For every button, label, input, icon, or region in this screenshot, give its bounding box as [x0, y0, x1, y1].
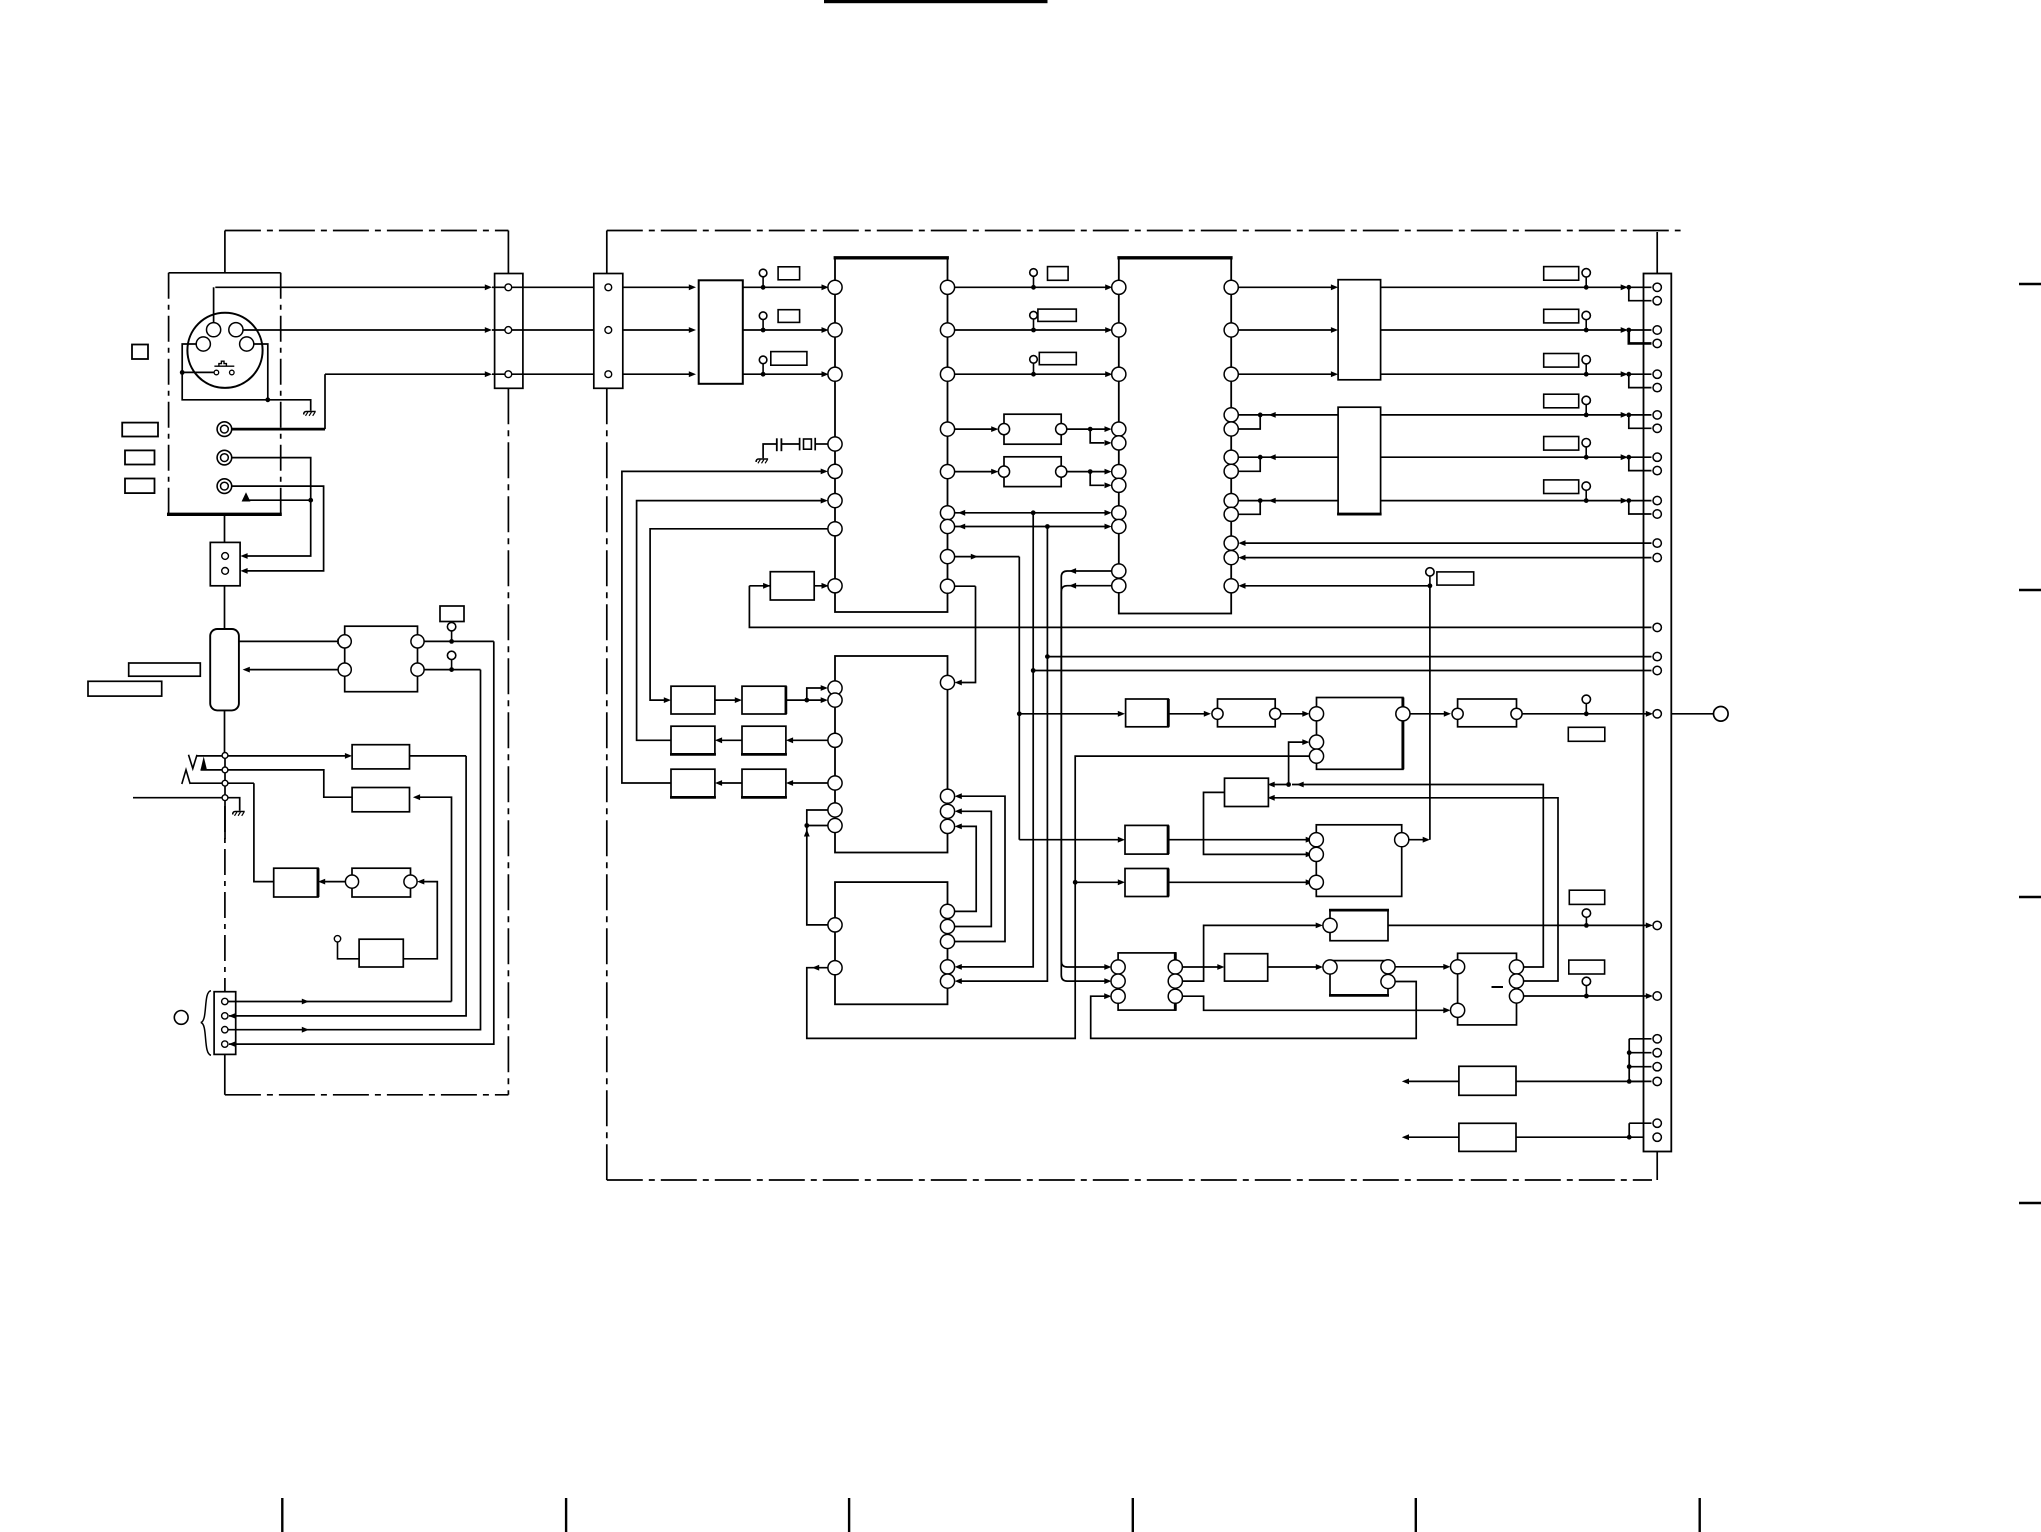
arrow into IC2 pin 557 — [1238, 555, 1245, 561]
lever spring V — [189, 755, 198, 769]
arrow out IC2 pair y=500.6 — [1269, 498, 1276, 504]
wire IC4 911 to IC3 826 — [955, 826, 977, 911]
wire junction to IC3 pin700 — [807, 699, 825, 701]
wire riser to IC2 pin 585.8 — [1242, 585, 1430, 587]
arrow into burst pin — [1316, 923, 1323, 929]
wire IC1 xtal pin — [815, 443, 828, 445]
boxK pin right 2 — [1509, 974, 1523, 988]
wire to pin row 5 — [1629, 456, 1652, 458]
box F right edge thick — [1401, 698, 1404, 770]
test point row3 (block out) — [759, 356, 767, 377]
IC2 right pin y=514.3 — [1224, 507, 1238, 521]
CN3 pin 6 — [1653, 383, 1661, 391]
label box CN3 row 6 — [1544, 480, 1579, 494]
arrow into box O3 — [715, 737, 722, 743]
box M1 — [345, 626, 418, 692]
test point CN3 row 2 — [1582, 311, 1590, 332]
arrow into boxF pin — [1302, 711, 1309, 717]
box O3 bottom edge thick — [670, 753, 716, 756]
bus Y1 with clock riser — [749, 586, 1651, 628]
IC1 right pin y=586.2 — [940, 579, 954, 593]
IC2 left pin y=571.0 — [1112, 564, 1126, 578]
arrow into Q pin2 — [1104, 978, 1111, 984]
box H — [1225, 778, 1269, 806]
arrow into boxE pin — [1204, 711, 1211, 717]
switch ground elbow — [228, 798, 240, 811]
box O4 bottom edge thick — [741, 753, 787, 756]
box M2 — [352, 745, 409, 769]
wire xtal to cap — [781, 443, 799, 445]
IC1 right pin y=287.3 — [940, 280, 954, 294]
PLL pin left 2 — [1309, 847, 1323, 861]
Z-link row 2 — [1629, 330, 1652, 343]
DIN J1 pin 5 — [214, 370, 219, 375]
box E — [1218, 699, 1276, 727]
panel box top edge — [169, 272, 281, 274]
right unit boundary top edge — [607, 230, 1681, 232]
IC2 left pin y=512.8 — [1112, 506, 1126, 520]
arrow into IC4 pin 966.9 — [955, 964, 962, 970]
vertical V2 — [958, 513, 1033, 967]
arrow into block row 1 — [689, 284, 696, 290]
arrow into box H in1 — [1268, 782, 1275, 788]
junction pair y=414.9 — [1258, 413, 1263, 418]
label box CN3 row 1 — [1544, 267, 1579, 281]
arrow before CN3 row 3 — [1621, 371, 1628, 377]
signal row 3 segment CN1-CN2 — [492, 373, 594, 375]
arrow into IC1 pin 500.6 — [821, 498, 828, 504]
wire burst out to CN3 — [1388, 924, 1650, 926]
IC1 body — [835, 258, 948, 612]
Z-link row 1 — [1629, 287, 1652, 300]
junction OSD row1 — [804, 698, 809, 703]
arrow out IC2 pin585.7 — [1069, 583, 1076, 589]
right-edge alignment tick 4 — [2019, 1202, 2041, 1204]
P2 pin right — [1056, 466, 1067, 477]
Q pin right y=967 — [1168, 960, 1182, 974]
small label box above TP — [440, 606, 464, 622]
wire IC2 pair upper y=457.2 — [1238, 456, 1338, 458]
riser junction to boxF pin2 — [1289, 742, 1306, 784]
test point TP2 — [447, 651, 455, 672]
P1 pin right — [1056, 424, 1067, 435]
PLL pin right — [1395, 833, 1409, 847]
box K — [1458, 953, 1517, 1025]
box P2 — [1004, 457, 1061, 487]
arrow into boxK pin2 — [1443, 1007, 1450, 1013]
test point row1 (IC1 out) — [1030, 269, 1038, 290]
IC1 left pin y=374.2 — [828, 367, 842, 381]
title underline bar — [824, 0, 1048, 3]
branch to IC3 pin 688 — [807, 688, 825, 700]
box N1 (IR amp) — [274, 868, 318, 897]
IC2 right pin y=457.2 — [1224, 450, 1238, 464]
Q pin right y=996.2 — [1168, 989, 1182, 1003]
burst box pin left — [1323, 918, 1337, 932]
right unit boundary left segment upper — [606, 231, 608, 274]
box G — [1458, 699, 1517, 727]
wire O6 to O5 — [718, 782, 742, 784]
box BR2 — [1459, 1123, 1516, 1151]
IC4 body (charagen) — [835, 882, 948, 1004]
IC1 right pin y=526.5 — [940, 519, 954, 533]
lever wire c4 row — [133, 797, 222, 799]
arrow into IC2 y=471.6 — [1105, 469, 1112, 475]
CN3 pin 12 — [1653, 510, 1661, 518]
IC3 left pin y=700.1 — [828, 693, 842, 707]
wire M2 out — [410, 755, 467, 757]
label box CN3 row 5 — [1544, 437, 1579, 451]
remote sensor circle — [174, 1011, 188, 1025]
label box row2 (block out) — [778, 310, 800, 323]
CN3 pin 9 — [1653, 453, 1661, 461]
arrow into M3 — [413, 794, 420, 800]
IC2 right pin y=471.3 — [1224, 464, 1238, 478]
box D right edge thick — [1167, 869, 1170, 897]
boxF pin left 1 — [1309, 707, 1323, 721]
IC3 left pin y=740.3 — [828, 733, 842, 747]
arrow into box O2 — [735, 697, 742, 703]
junction V3 busY2 — [1045, 654, 1050, 659]
branch P2 to IC2 second pin — [1090, 472, 1104, 486]
switch wire c3-c4 — [224, 786, 226, 795]
test point CN3 row 4 — [1582, 396, 1590, 417]
box O2 right edge thick — [785, 686, 788, 714]
crystal body — [804, 439, 812, 449]
CN3 pin cluster 1 — [1653, 1035, 1661, 1043]
signal row 3 segment block-IC1 — [743, 373, 826, 375]
CN3 pin busY2 — [1653, 652, 1661, 660]
ground (switch) — [233, 812, 245, 816]
arrow into IC2 row 2 — [1105, 327, 1112, 333]
CN3 pin 1 — [1653, 283, 1661, 291]
IC2 left pin y=374.2 — [1112, 367, 1126, 381]
wire boxJ to boxK — [1395, 966, 1447, 968]
IC1 right pin y=471.6 — [940, 465, 954, 479]
boxK minus mark — [1492, 986, 1504, 988]
4-pin connector pin 1 — [222, 998, 228, 1004]
DIN J1 pin 2 — [229, 323, 243, 337]
arrow into IC4 pin 981.1 — [955, 978, 962, 984]
RCA jack video inner — [221, 425, 229, 433]
wire PLL out riser — [1409, 586, 1430, 840]
terminal lead — [1671, 713, 1713, 715]
wire IC4 941 to IC3 796 — [955, 796, 1005, 941]
CN3 pair bracket lower — [1629, 1123, 1651, 1137]
junction Z row 3 — [1626, 372, 1631, 377]
box O3 — [671, 726, 715, 754]
CN3 pin 557 — [1653, 553, 1661, 561]
burst box top edge thick — [1329, 909, 1389, 912]
junction V1 G-row — [1017, 711, 1022, 716]
capacitor plate left — [776, 438, 778, 451]
IC3 right pin y=682.5 — [940, 675, 954, 689]
CN1 pin 1 — [505, 284, 512, 291]
crystal plate left — [799, 438, 801, 451]
arrow into IC2 y=485.3 — [1105, 482, 1112, 488]
switch contact c4 — [222, 795, 228, 801]
wire to pin row 2 — [1629, 329, 1652, 331]
arrow left end BR2 — [1402, 1134, 1409, 1140]
signal row 2 segment block-IC1 — [743, 329, 826, 331]
lever wire c3 row — [190, 782, 222, 784]
signal row 3 segment CN2-block — [623, 373, 693, 375]
CN3 pin cluster 4 — [1653, 1077, 1661, 1085]
arrow up to junction 825.5 — [804, 829, 810, 836]
wire V1 to SB1 — [1019, 713, 1121, 715]
signal row 1 segment boxA-CN3 — [1381, 286, 1625, 288]
IC1 left pin y=500.6 — [828, 494, 842, 508]
box Q — [1118, 953, 1175, 1010]
CN3 pin busY3 — [1653, 666, 1661, 674]
arrow right y=512.8 — [1105, 510, 1112, 516]
boxG pin right — [1511, 708, 1522, 719]
arrow before CN3 y=457.2 — [1621, 454, 1628, 460]
M1 pin left 1 — [338, 635, 351, 648]
4-pin connector — [214, 992, 236, 1055]
signal row 2 segment CN1-CN2 — [492, 329, 594, 331]
signal row 1 segment IC2-boxA — [1238, 286, 1334, 288]
IC2 left pin y=485.3 — [1112, 478, 1126, 492]
wire boxI to boxJ — [1268, 966, 1320, 968]
wire DIN pin5 stub — [182, 371, 214, 373]
arrow into boxI — [1217, 964, 1224, 970]
wire P2 to IC2 — [1067, 471, 1108, 473]
IC4 right pin y=911.4 — [940, 904, 954, 918]
box N3 (IR sensor) — [359, 939, 403, 967]
IC1 left pin y=528.8 — [828, 522, 842, 536]
CN1 pin 2 — [505, 327, 512, 334]
arrow into box A row 1 — [1331, 284, 1338, 290]
Q pin left y=967 — [1111, 960, 1125, 974]
CN3 pin lower 2 — [1653, 1133, 1661, 1141]
wire DIN pin3 loop left — [182, 344, 268, 400]
connector CN2 — [594, 274, 623, 389]
signal row 1 segment DIN-CN1 — [215, 286, 488, 288]
wire BR1 line — [1405, 1080, 1643, 1082]
junction V2 busY3 — [1031, 668, 1036, 673]
wire IC1 to P2 — [955, 471, 995, 473]
signal row 2 segment IC1-IC2 — [955, 329, 1109, 331]
switch wire below c4 — [224, 801, 226, 839]
RCA jack audio R outer — [217, 479, 232, 494]
CN3 pin burst — [1653, 921, 1661, 929]
branch P1 to IC2 second pin — [1090, 429, 1104, 443]
box N1 right edge thick — [317, 868, 320, 897]
bottom alignment tick 5 — [1415, 1498, 1417, 1532]
CN2 pin 3 — [605, 371, 612, 378]
wire connector to M1 in — [239, 640, 341, 642]
panel box bottom edge (thick) — [167, 513, 282, 516]
arrow into 2pin block pin2 — [240, 568, 247, 574]
wire O4 to O3 — [718, 739, 742, 741]
box P1 — [1004, 414, 1061, 444]
right unit boundary left edge (chain below CN2) — [606, 388, 608, 1180]
wire VL3 (pin3 up to M1 in) — [229, 670, 481, 1030]
wire Q2 to burst box — [1182, 925, 1319, 981]
IC2 right pin y=429.0 — [1224, 422, 1238, 436]
IC3 left pin y=783 — [828, 776, 842, 790]
wire 2pin block down — [224, 586, 226, 629]
IC1 left pin y=585.8 — [828, 579, 842, 593]
bottom alignment tick 4 — [1132, 1498, 1134, 1532]
box O5 bottom edge thick — [670, 796, 716, 799]
bottom alignment tick 1 — [281, 1498, 283, 1532]
wire V5a to box D — [1075, 881, 1121, 883]
IC2 left pin y=471.6 — [1112, 465, 1126, 479]
wire IC2 pair upper y=500.6 — [1238, 500, 1338, 502]
arrow right y=526.5 — [1105, 524, 1112, 530]
switch contact c2 — [222, 767, 228, 773]
wire IC3 pin740 to O4 — [789, 739, 828, 741]
arrow into IC2 row 1 — [1105, 284, 1112, 290]
arrow into CN1 row 1 — [485, 284, 492, 290]
junction V3 top — [1045, 524, 1050, 529]
label box CN3 row 4 — [1544, 394, 1579, 408]
test point row2 (block out) — [759, 312, 767, 332]
test point CN3 row 5 — [1582, 439, 1590, 460]
wire boxK out3 to CN3 — [1524, 995, 1650, 997]
junction 784.5 — [1286, 782, 1291, 787]
output terminal circle — [1714, 707, 1729, 722]
wire IC2 pin585.7 curve down (V4b) — [1061, 586, 1111, 981]
wire VL1 (pin1 up to M3) — [416, 797, 452, 1001]
IC3 left pin y=825.5 — [828, 818, 842, 832]
CN2 pin 1 — [605, 284, 612, 291]
arrow toward junction 784.5 — [1297, 782, 1304, 788]
wire jack1 riser — [324, 374, 326, 429]
CN3 pin 8 — [1653, 424, 1661, 432]
DIN J1 pin 6 — [230, 370, 235, 375]
signal row 1 segment IC1-IC2 — [955, 286, 1109, 288]
boxK pin right 1 — [1509, 960, 1523, 974]
CN2 pin 2 — [605, 327, 612, 334]
arrow into IC2 pin 543 — [1238, 540, 1245, 546]
IC1 left pin y=287.3 — [828, 280, 842, 294]
arrow into PLL pin3 — [1306, 879, 1313, 885]
wire IC4 924.9 riser — [807, 826, 828, 925]
P1 pin left — [998, 424, 1009, 435]
box N2 — [352, 868, 411, 897]
junction Z row 1 — [1626, 285, 1631, 290]
switch wire c1-c2 — [224, 758, 226, 767]
arrow before CN3 y=500.6 — [1621, 498, 1628, 504]
IC1 left pin y=471.4 — [828, 464, 842, 478]
wire boxG to CN3 — [1522, 713, 1649, 715]
junction P1 out — [1088, 427, 1093, 432]
IC4 right pin y=966.9 — [940, 960, 954, 974]
box A — [1338, 280, 1381, 380]
Z-link row 5 — [1629, 457, 1652, 470]
boxJ pin right 1 — [1381, 960, 1395, 974]
arrow into clock box — [763, 583, 770, 589]
IC1 right pin y=512.8 — [940, 506, 954, 520]
CN3 pin 5 — [1653, 370, 1661, 378]
DIN J1 pin 3 — [196, 337, 210, 351]
wire jack3 to block — [232, 486, 324, 571]
arrow into N1 — [318, 879, 325, 885]
wire Q1 to boxI — [1182, 966, 1221, 968]
boxF pin left 3 — [1309, 749, 1323, 763]
CN3 bottom stub — [1656, 1152, 1658, 1181]
wire DIN pin4 down — [254, 344, 268, 400]
arrow on pin3 wire — [302, 1027, 309, 1033]
CN3 pin cluster 3 — [1653, 1063, 1661, 1071]
junction BR1 — [1627, 1079, 1632, 1084]
wire O1 to O2 — [715, 699, 739, 701]
label box CN3 row 2 — [1544, 309, 1579, 323]
wire to pin row 3 — [1629, 373, 1652, 375]
arrow into box O5 — [715, 780, 722, 786]
rounded connector (jog board) — [210, 629, 239, 710]
junction P2 out — [1088, 469, 1093, 474]
arrow left y=512.8 — [958, 510, 965, 516]
IC2 right pin y=374.2 — [1224, 367, 1238, 381]
arrow into box O1 — [664, 697, 671, 703]
wire BR1 to pin4 — [1629, 1080, 1651, 1082]
bidirectional bus y=526.5 — [955, 526, 1109, 528]
CN3 pin 2 — [1653, 297, 1661, 305]
wire O5 to IC1 pin471 loop — [622, 471, 824, 783]
DIN connector J1 outline — [187, 313, 262, 388]
test point boxK out3 — [1582, 977, 1590, 998]
label box (jog lever) — [88, 681, 162, 696]
CN3 cluster bracket — [1629, 1039, 1651, 1082]
switch common wire upper — [224, 710, 226, 752]
label box boxK out3 — [1569, 960, 1605, 974]
IC2 left pin y=429.1 — [1112, 422, 1126, 436]
test point G-row — [1582, 695, 1590, 716]
lever wire top — [197, 755, 222, 757]
M1 pin right 1 — [411, 635, 424, 648]
lever wiper triangle — [201, 756, 208, 770]
box I — [1225, 954, 1268, 981]
M1 pin right 2 — [411, 663, 424, 676]
arrow into IC2 row 3 — [1105, 371, 1112, 377]
signal row 2 segment boxA-CN3 — [1381, 329, 1625, 331]
arrow into IC2 right pin 585.8 — [1238, 583, 1245, 589]
wire cap to ground — [763, 444, 777, 458]
wire boxK out2 riser — [1271, 798, 1558, 981]
signal row 3 segment IC2-boxA — [1238, 373, 1334, 375]
arrow on pin1 wire — [302, 999, 309, 1005]
boxK pin right 3 — [1509, 989, 1523, 1003]
box B bottom edge thick — [1337, 513, 1382, 516]
connector CN1 — [495, 274, 523, 389]
arrow into Q pin1 — [1104, 964, 1111, 970]
return bus y=557 — [1242, 557, 1652, 559]
label box row1 (IC1 out) — [1048, 267, 1069, 281]
box O5 — [671, 769, 715, 797]
panel box left edge (chain) — [168, 273, 170, 513]
left unit boundary left segment upper — [224, 231, 226, 273]
box B — [1338, 407, 1381, 514]
boxE pin right — [1270, 708, 1281, 719]
right-edge alignment tick 1 — [2019, 283, 2041, 285]
arrow into 4pin connector pin4 — [229, 1041, 236, 1047]
signal row 1 segment block-IC1 — [743, 286, 826, 288]
arrow at PLL riser corner — [1423, 837, 1430, 843]
box C right edge thick — [1167, 825, 1170, 854]
arrow into boxG pin — [1444, 711, 1451, 717]
wire c3 to N1 riser — [228, 783, 274, 881]
signal row 3 segment boxA-CN3 — [1381, 373, 1625, 375]
wire boxF to boxG — [1410, 713, 1448, 715]
arrow into IC3 pin 700.1 — [821, 697, 828, 703]
wire P1 to IC2 — [1067, 428, 1108, 430]
CN3 pin 10 — [1653, 466, 1661, 474]
IC2 right pin y=585.8 — [1224, 579, 1238, 593]
